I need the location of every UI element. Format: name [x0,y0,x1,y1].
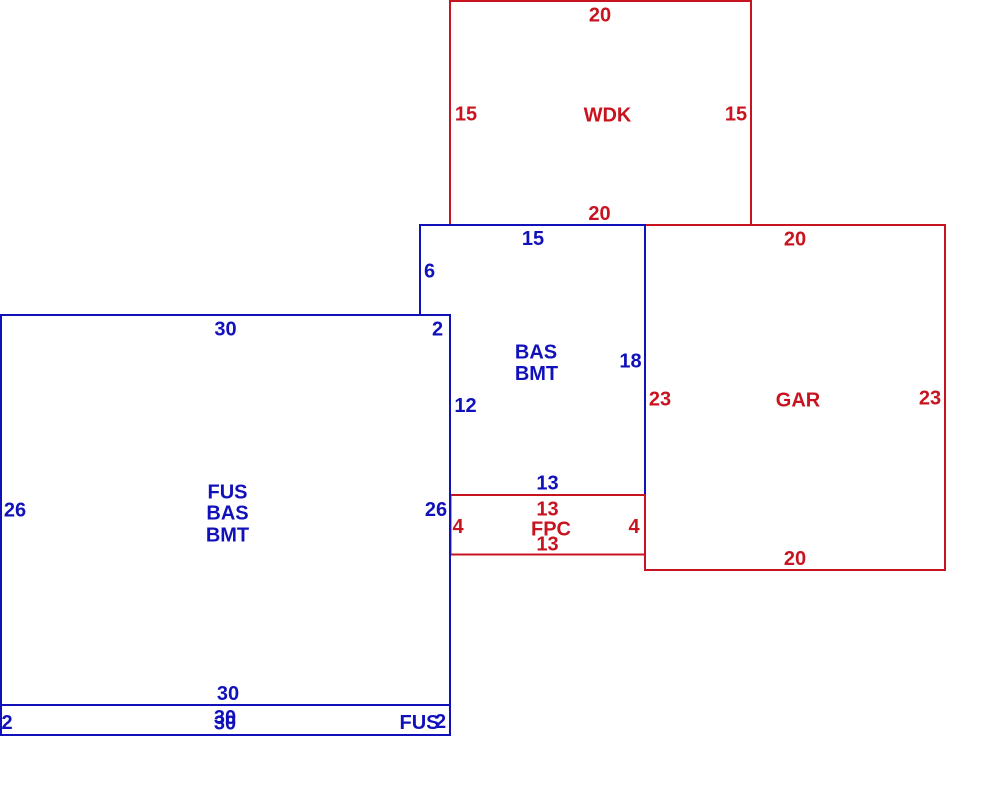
svg-text:26: 26 [4,499,26,521]
svg-text:2: 2 [1,712,12,734]
svg-text:4: 4 [628,516,640,538]
svg-text:GAR: GAR [776,389,821,411]
svg-text:BAS: BAS [206,503,248,525]
svg-text:20: 20 [784,548,806,570]
svg-text:12: 12 [454,395,476,417]
svg-text:30: 30 [217,683,239,705]
svg-text:BAS: BAS [515,342,557,364]
svg-text:20: 20 [784,229,806,251]
svg-text:15: 15 [455,103,477,125]
svg-text:13: 13 [536,533,558,555]
svg-text:30: 30 [214,713,236,735]
svg-text:4: 4 [452,516,464,538]
svg-text:15: 15 [522,228,544,250]
svg-text:20: 20 [588,203,610,225]
area FPC outline [451,495,646,555]
svg-text:26: 26 [425,499,447,521]
svg-text:2: 2 [435,711,446,733]
area FUS/BAS/BMT outline [1,315,450,705]
svg-text:20: 20 [589,5,611,27]
svg-text:6: 6 [424,260,435,282]
svg-text:30: 30 [214,318,236,340]
svg-text:23: 23 [649,388,671,410]
svg-text:2: 2 [432,318,443,340]
svg-text:18: 18 [619,351,641,373]
svg-text:15: 15 [725,103,747,125]
svg-text:13: 13 [536,473,558,495]
area FUS strip outline [1,705,450,735]
svg-text:BMT: BMT [515,363,558,385]
svg-text:13: 13 [536,498,558,520]
svg-text:FUS: FUS [400,712,440,734]
area BAS/BMT outline [420,225,645,495]
svg-text:BMT: BMT [206,524,249,546]
svg-text:FUS: FUS [208,481,248,503]
svg-text:WDK: WDK [584,105,632,127]
area WDK outline [450,1,751,225]
area GAR outline [645,225,945,570]
svg-text:23: 23 [919,388,941,410]
